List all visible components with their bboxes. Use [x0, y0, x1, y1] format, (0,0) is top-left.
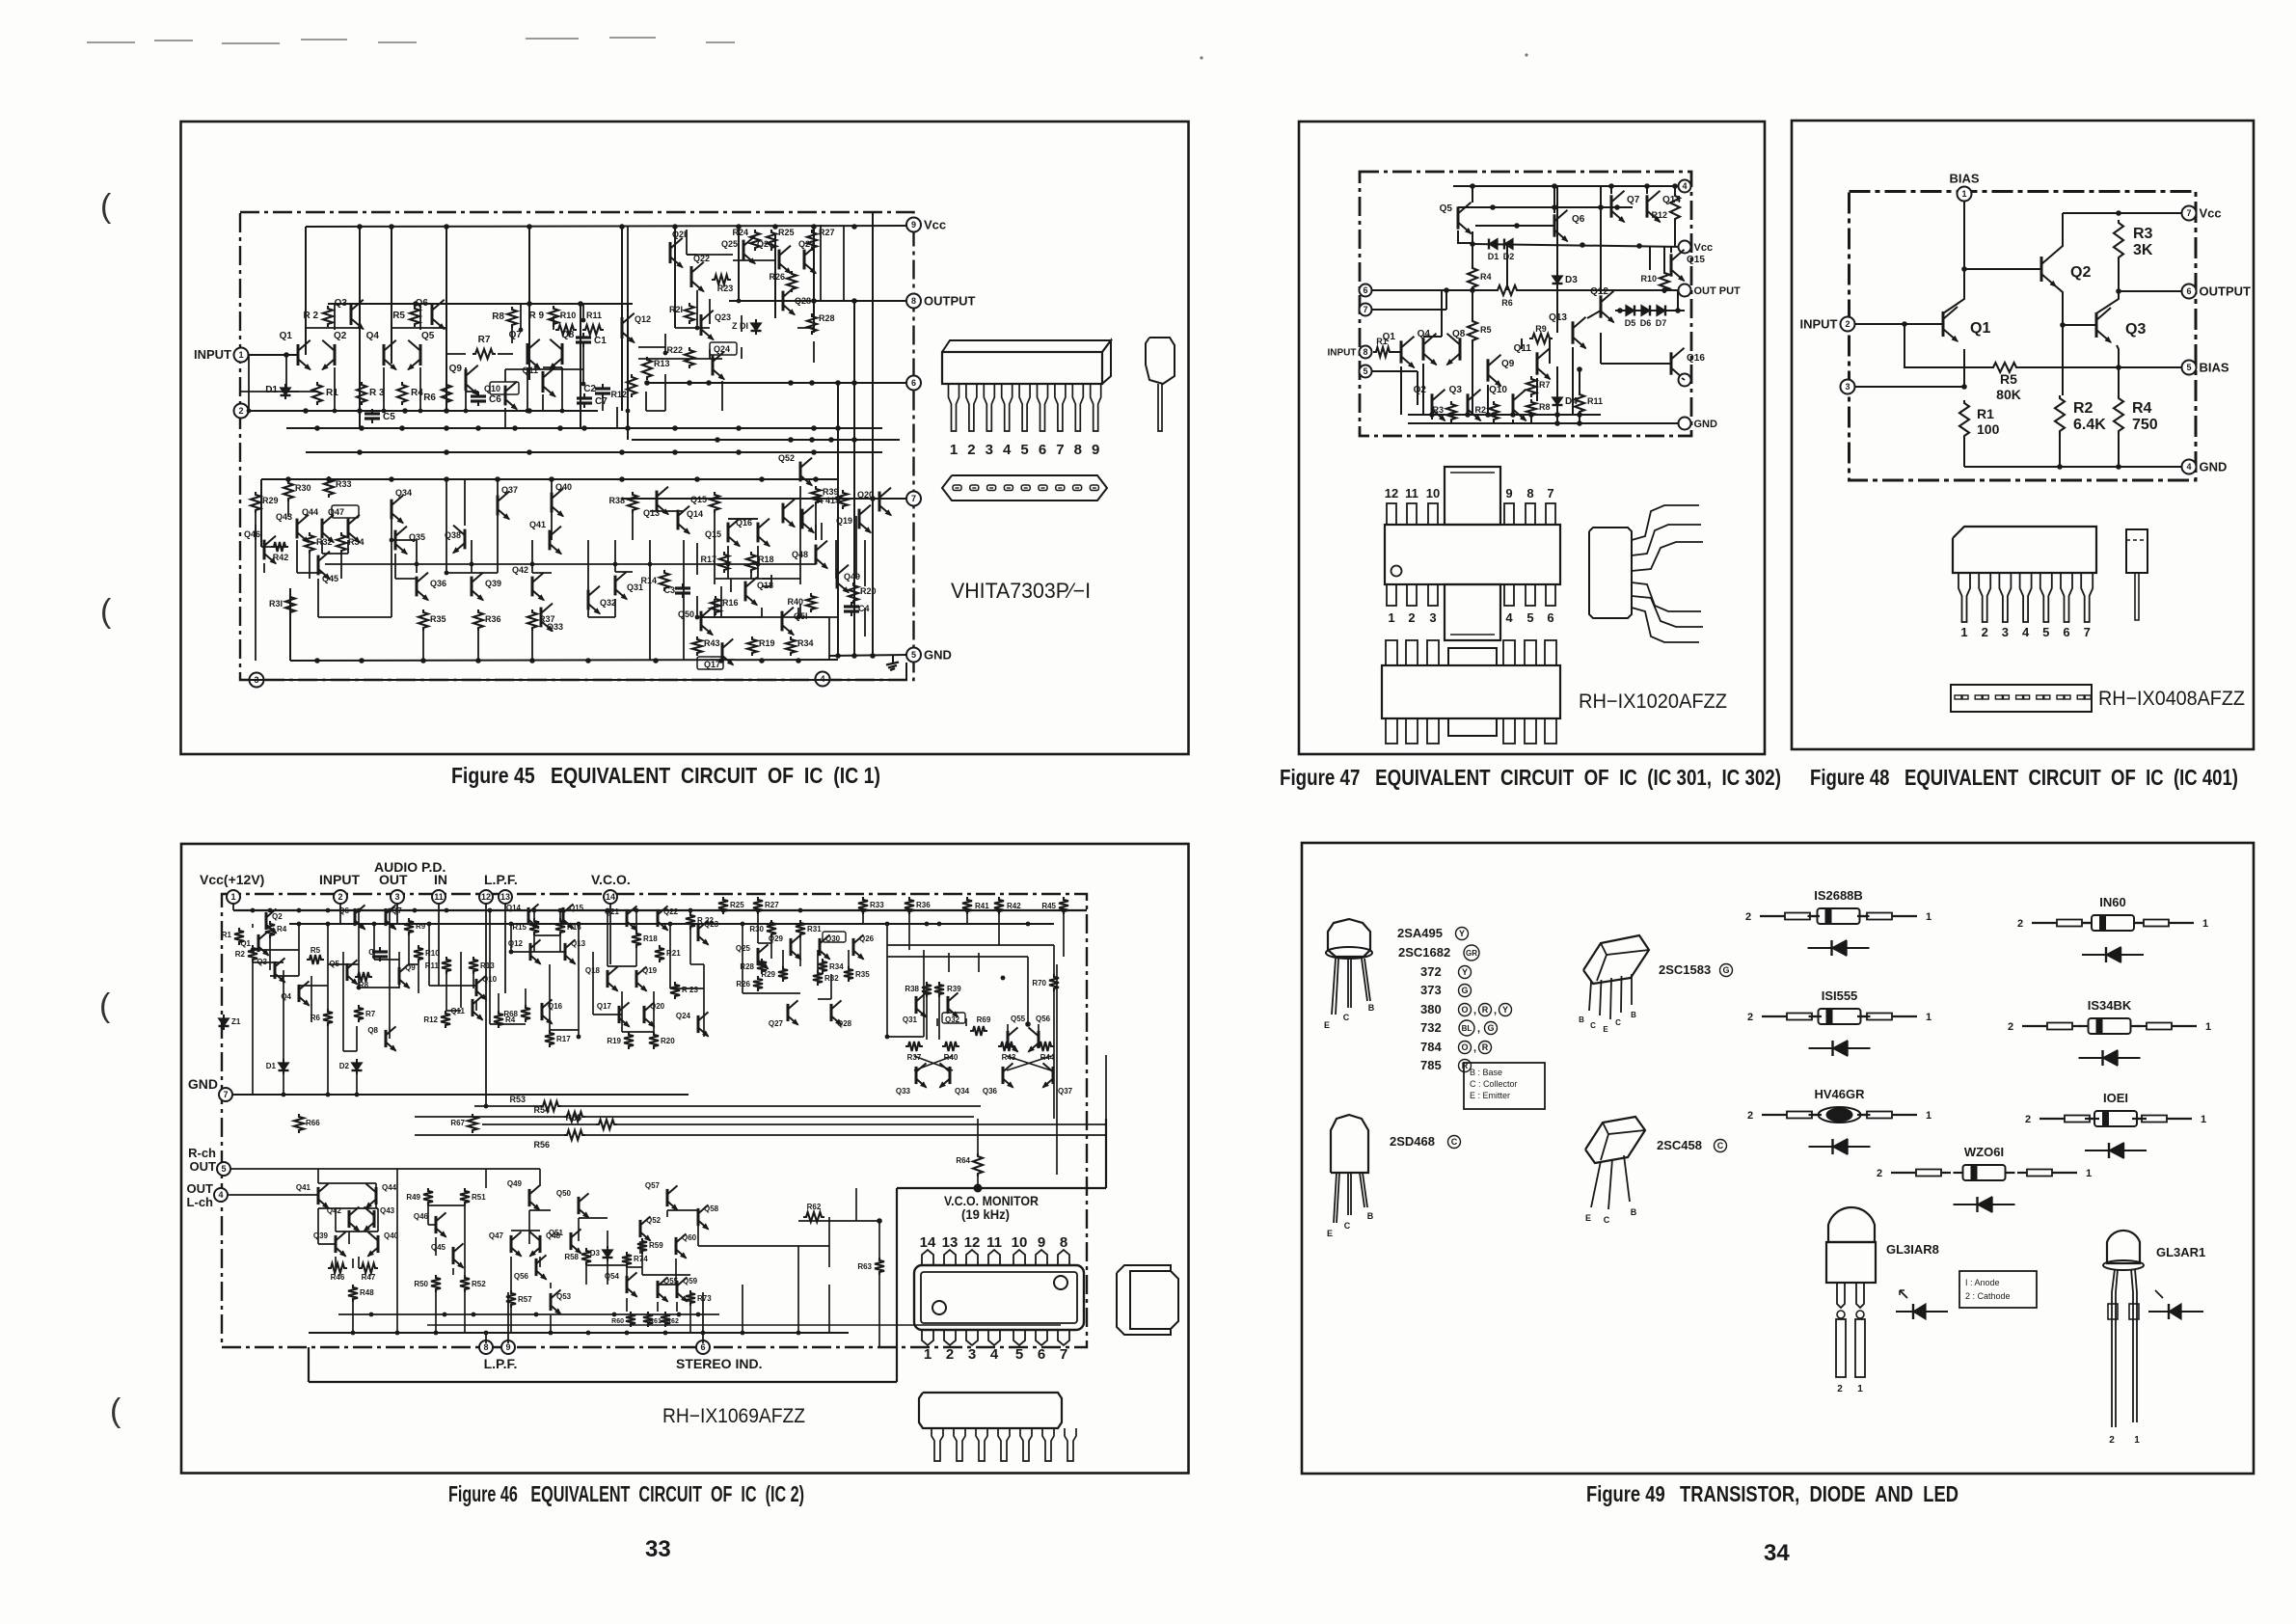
resistor R57: [506, 1290, 516, 1308]
resistor R18: [746, 552, 756, 573]
long route wires lower: [396, 1244, 398, 1333]
svg-text:Q14: Q14: [687, 509, 703, 519]
svg-text:Q51: Q51: [549, 1229, 564, 1237]
svg-text:Q32: Q32: [600, 598, 616, 608]
anode cathode legend box: [1959, 1271, 2037, 1308]
svg-text:V.C.O.: V.C.O.: [591, 872, 631, 887]
Vcc line: [1473, 244, 1685, 247]
resistor R28: [807, 313, 817, 335]
resistor R69 horizontal: [970, 1026, 987, 1036]
svg-text:OUTPUT: OUTPUT: [2200, 284, 2252, 299]
resistor R1: [234, 928, 244, 945]
transistor Q43: [296, 519, 299, 539]
svg-text:Q58: Q58: [704, 1204, 719, 1213]
svg-text:2SC1583: 2SC1583: [1659, 962, 1711, 977]
resistor R10 horizontal: [555, 325, 577, 335]
transistor Q12: [1600, 295, 1603, 317]
svg-text:R38: R38: [905, 985, 919, 993]
transistor Q20: [643, 1006, 646, 1023]
resistor R7 horizontal: [473, 349, 496, 359]
package pins up and numbers 12 11 10 / 9 8 7: [1387, 503, 1396, 525]
svg-text:OUTPUT: OUTPUT: [924, 294, 976, 309]
wire Q16 base left long: [1601, 363, 1671, 365]
svg-text:R55: R55: [565, 1113, 581, 1123]
svg-text:Q26: Q26: [757, 239, 773, 249]
svg-text:R4: R4: [2132, 400, 2152, 417]
svg-text:Q46: Q46: [414, 1212, 429, 1221]
svg-text:3: 3: [986, 442, 993, 458]
wire Q2emitter column down to R2: [2062, 325, 2064, 395]
svg-text:R26: R26: [736, 980, 750, 988]
pin 9 bottom: [501, 1340, 515, 1354]
svg-text:Q60: Q60: [682, 1233, 697, 1242]
svg-text:R52: R52: [472, 1280, 486, 1288]
svg-text:Q20: Q20: [650, 1002, 665, 1011]
resistor R38: [922, 982, 932, 997]
svg-text:C: C: [1604, 1215, 1610, 1225]
svg-text:Figure 48 EQUIVALENT CIRCUI: Figure 48 EQUIVALENT CIRCUIT OF IC (IC 4…: [1810, 765, 2238, 790]
resistor R11: [442, 957, 451, 974]
figure 46 group: equivalent circuit of IC2: [181, 844, 1189, 1474]
svg-text:R53: R53: [509, 1095, 526, 1104]
GND rail: [1408, 422, 1685, 424]
wire Q1 emitter down to pin3 node: [1963, 349, 1965, 387]
pin 13 top: [499, 890, 512, 904]
IC2 left column wires: [232, 904, 234, 910]
pin 6: [906, 376, 921, 391]
bottom junction bus: [1408, 414, 1601, 416]
transistor Q46: [435, 1216, 438, 1233]
extra pair transistors: [782, 503, 785, 524]
svg-text:10: 10: [1012, 1234, 1028, 1251]
svg-text:Q2: Q2: [2070, 264, 2091, 281]
resistor R31: [285, 594, 295, 615]
transistor Q23: [700, 314, 703, 336]
svg-text:GL3IAR8: GL3IAR8: [1886, 1242, 1939, 1257]
svg-text:INPUT: INPUT: [319, 872, 360, 887]
svg-text:Q37: Q37: [501, 485, 518, 495]
svg-text:B : Base: B : Base: [1470, 1068, 1502, 1077]
svg-text:Q49: Q49: [507, 1179, 523, 1188]
transistor Q25: [743, 240, 745, 260]
svg-text:C4: C4: [858, 604, 870, 613]
svg-text:R5: R5: [392, 311, 405, 321]
svg-text:Q2I: Q2I: [672, 230, 687, 239]
transistor Q54: [626, 1276, 629, 1293]
svg-text:6: 6: [1547, 610, 1553, 625]
svg-text:Q15: Q15: [569, 904, 584, 912]
svg-text:2: 2: [1845, 319, 1850, 329]
svg-text:Q19: Q19: [836, 516, 852, 526]
resistor R25: [718, 897, 728, 914]
svg-text:Q3: Q3: [1449, 385, 1463, 395]
svg-text:Q17: Q17: [704, 660, 720, 669]
svg-text:2: 2: [1747, 1012, 1753, 1023]
svg-text:2: 2: [2025, 1114, 2031, 1125]
transistor Q58: [697, 1208, 700, 1226]
transistor Q50: [700, 611, 703, 632]
resistor R30: [284, 480, 293, 501]
transistor Q11: [1536, 352, 1539, 374]
svg-text:Q36: Q36: [983, 1087, 998, 1096]
resistor R4: [1468, 265, 1477, 290]
diode package WZO6I: [1891, 1172, 1916, 1174]
scan artifact dashes top margin: [87, 41, 135, 43]
svg-text:2: 2: [2008, 1021, 2013, 1033]
transistor Q42: [531, 577, 534, 597]
pin 6 OUTPUT: [2182, 284, 2197, 299]
svg-text:R5: R5: [2000, 371, 2017, 387]
lower block sub-rails: [697, 616, 829, 618]
svg-text:Q10: Q10: [484, 384, 500, 393]
transistor Q50: [578, 1197, 581, 1214]
wire input junction down to R5 line: [1904, 324, 1990, 367]
svg-text:R22: R22: [666, 345, 683, 355]
svg-text:R42: R42: [273, 553, 289, 562]
svg-text:R4: R4: [411, 388, 423, 398]
svg-text:R3I: R3I: [269, 599, 283, 609]
input wire: [249, 354, 298, 356]
resistor R17: [719, 552, 729, 573]
svg-text:2: 2: [1745, 911, 1751, 923]
svg-text:GND: GND: [188, 1076, 218, 1092]
transistor Q24 boxed: [712, 356, 715, 376]
svg-text:1: 1: [1926, 1110, 1931, 1122]
capacitor C6: [477, 392, 479, 396]
resistor R42 horizontal: [271, 542, 288, 552]
svg-text:2SA495: 2SA495: [1397, 926, 1443, 940]
svg-text:,: ,: [1494, 1005, 1497, 1016]
pin 6 left: [1360, 284, 1372, 297]
resistor R22: [685, 347, 694, 368]
svg-text:8: 8: [1074, 442, 1082, 458]
svg-text:Vcc: Vcc: [924, 218, 946, 232]
OUT PUT line: [1365, 289, 1495, 291]
svg-text:R60: R60: [611, 1318, 624, 1325]
svg-text:R25: R25: [778, 228, 795, 237]
svg-text:R 2: R 2: [303, 311, 318, 321]
resistor R14: [660, 570, 669, 591]
svg-text:2: 2: [1837, 1384, 1843, 1394]
transistor package 2SA495 TO-39 can: [1328, 919, 1370, 957]
svg-text:C: C: [1451, 1137, 1458, 1147]
svg-text:80K: 80K: [1996, 387, 2021, 402]
transistor Q56: [1038, 1031, 1040, 1048]
transistor Q21: [669, 242, 672, 263]
svg-text:R19: R19: [607, 1037, 621, 1045]
junction R5 line at R4 column: [2116, 365, 2121, 370]
diode D1 D2 on Vcc feed: [1489, 239, 1498, 250]
transistor Q6: [354, 908, 357, 926]
IC401 package side view: [2126, 529, 2147, 573]
svg-text:(: (: [100, 593, 112, 630]
svg-text:1: 1: [2202, 918, 2208, 930]
svg-text:Q13: Q13: [1549, 312, 1567, 323]
pin OUT PUT right: [1679, 284, 1691, 297]
svg-text:Q46: Q46: [244, 529, 260, 539]
transistor Q20: [878, 492, 881, 512]
svg-text:Q11: Q11: [522, 365, 538, 375]
svg-text:R49: R49: [406, 1193, 420, 1202]
svg-text:R70: R70: [1032, 979, 1046, 988]
svg-text:E: E: [1603, 1025, 1608, 1034]
VCO monitor wire: [897, 1187, 1106, 1189]
pin Vcc right: [1679, 241, 1691, 254]
svg-text:R6: R6: [423, 392, 436, 403]
resistor R3: [357, 382, 366, 405]
transistor Q13: [1572, 321, 1575, 343]
resistor R12: [1670, 193, 1680, 222]
svg-text:Z DI: Z DI: [732, 321, 748, 331]
svg-text:Q47: Q47: [328, 507, 344, 517]
svg-text:3: 3: [1845, 382, 1850, 392]
svg-text:C2: C2: [583, 384, 596, 394]
svg-text:R 9: R 9: [528, 311, 544, 321]
svg-text:2: 2: [1982, 625, 1988, 639]
svg-text:4: 4: [990, 1346, 999, 1363]
pin 3: [1841, 380, 1855, 394]
capacitor C4: [851, 602, 852, 607]
svg-text:R51: R51: [472, 1193, 486, 1202]
svg-text:R54: R54: [533, 1105, 550, 1115]
right half mid rails: [887, 944, 1054, 946]
svg-text:R36: R36: [916, 901, 931, 909]
svg-text:C7: C7: [595, 396, 608, 407]
svg-text:INPUT: INPUT: [1328, 348, 1357, 359]
svg-text:BL: BL: [1462, 1024, 1472, 1033]
transistor Q8: [561, 343, 564, 365]
resistor R37: [527, 609, 537, 631]
diode package HV46GR: [1762, 1114, 1787, 1116]
svg-text:Q50: Q50: [678, 609, 694, 619]
resistor R33: [324, 476, 334, 498]
svg-text:R27: R27: [765, 901, 779, 909]
L-ch out wire: [229, 1194, 318, 1196]
resistor R39: [811, 486, 821, 505]
svg-text:R33: R33: [336, 479, 352, 489]
svg-text:Q15: Q15: [705, 529, 721, 539]
resistor R73: [686, 1290, 695, 1306]
svg-text:R5: R5: [311, 946, 321, 955]
svg-text:2: 2: [2109, 1435, 2115, 1446]
transistor Q11: [472, 999, 474, 1016]
transistor Q4: [383, 344, 386, 365]
svg-text:1: 1: [2134, 1435, 2140, 1446]
IC2 package bottom view 7 long legs: [919, 1393, 1062, 1428]
transistor Q31 boxed: [915, 996, 918, 1014]
svg-text:R23: R23: [717, 284, 734, 293]
resistor R13: [469, 957, 478, 974]
svg-text:R13: R13: [654, 359, 670, 368]
resistor R41: [838, 490, 848, 509]
figure 49 group: transistor, diode and LED packages: [1302, 843, 2254, 1474]
svg-text:Q52: Q52: [646, 1216, 662, 1225]
svg-text:1: 1: [1961, 189, 1966, 199]
svg-text:R20: R20: [860, 586, 877, 596]
resistor R20: [649, 1032, 659, 1049]
svg-text:Q34: Q34: [955, 1087, 970, 1096]
svg-text:R10: R10: [425, 949, 440, 958]
svg-text:E: E: [1324, 1020, 1330, 1030]
diode package IS2688B: [1760, 915, 1785, 917]
svg-text:7: 7: [2084, 625, 2091, 639]
svg-text:GR: GR: [1466, 949, 1477, 958]
transistor Q7: [527, 343, 529, 365]
transistor Q31: [614, 576, 617, 596]
pin 2: [234, 404, 249, 419]
extra interconnect wires upper block IC1: [248, 355, 250, 411]
svg-text:7: 7: [1547, 486, 1553, 501]
svg-text:B: B: [1579, 1015, 1584, 1024]
svg-text:785: 785: [1420, 1058, 1442, 1072]
transistor Q32: [587, 590, 590, 610]
svg-text:D3: D3: [590, 1249, 601, 1258]
resistor R50: [431, 1275, 441, 1292]
svg-text:WZO6I: WZO6I: [1964, 1145, 2004, 1159]
svg-text:Q4: Q4: [366, 331, 380, 341]
IC1 dash-dot boundary: [240, 212, 914, 680]
svg-text:R29: R29: [761, 970, 775, 979]
resistor R21: [685, 303, 694, 324]
resistor R5: [410, 306, 419, 327]
svg-text:12: 12: [964, 1234, 981, 1251]
figure 48 group: equivalent circuit of IC 401: [1792, 121, 2254, 749]
resistor R9 horizontal: [1529, 334, 1553, 343]
svg-text:E: E: [1327, 1229, 1333, 1238]
svg-text:Q17: Q17: [597, 1002, 612, 1011]
svg-text:5: 5: [1015, 1346, 1023, 1363]
transistor Q1: [1400, 340, 1403, 363]
svg-text:E : Emitter: E : Emitter: [1470, 1091, 1510, 1100]
IC2 package drawing 14 pin DIP: [914, 1265, 1084, 1330]
svg-text:R64: R64: [956, 1156, 970, 1165]
svg-text:2: 2: [946, 1346, 954, 1363]
transistor Q2: [334, 344, 337, 365]
svg-text:6: 6: [1038, 1346, 1045, 1363]
resistor R42: [994, 897, 1004, 914]
svg-text:Q8: Q8: [1452, 329, 1466, 339]
svg-text:RH−IX0408AFZZ: RH−IX0408AFZZ: [2098, 688, 2245, 710]
svg-text:C: C: [1717, 1141, 1724, 1150]
pin 11 top: [432, 890, 446, 904]
resistor R36: [473, 609, 483, 631]
transistor Q34: [949, 1067, 952, 1084]
upper mid horizontal links: [306, 327, 351, 329]
svg-text:R13: R13: [480, 961, 495, 970]
transistor Q11: [542, 371, 545, 392]
svg-text:Q22: Q22: [663, 907, 679, 916]
svg-text:R2: R2: [2073, 400, 2093, 417]
svg-text:Q23: Q23: [715, 312, 731, 322]
svg-text:1: 1: [2086, 1168, 2092, 1179]
pin 2 INPUT: [1841, 317, 1855, 332]
transistor Q24: [697, 1015, 700, 1033]
transistor Q51: [570, 1232, 573, 1250]
svg-text:Q6: Q6: [338, 907, 349, 915]
svg-text:R38: R38: [608, 496, 625, 505]
transistor Q14: [677, 510, 680, 530]
svg-text:8: 8: [483, 1342, 488, 1352]
svg-text:D1: D1: [266, 1062, 277, 1070]
svg-text:GND: GND: [1694, 419, 1718, 430]
svg-text:Q4: Q4: [281, 992, 291, 1001]
left outer vertical lower: [260, 479, 262, 547]
svg-text:GL3AR1: GL3AR1: [2156, 1245, 2205, 1259]
svg-text:7: 7: [223, 1090, 228, 1099]
svg-text:IS2688B: IS2688B: [1814, 888, 1863, 903]
svg-text:Q34: Q34: [395, 488, 412, 498]
svg-text:R34: R34: [829, 962, 844, 971]
resistor R7: [1526, 376, 1536, 397]
diode D3: [607, 1246, 608, 1250]
pin 5 GND: [906, 648, 921, 663]
transistor Q48: [815, 545, 818, 565]
resistor R1 horizontal on input: [1373, 347, 1392, 357]
resistor R10: [414, 945, 423, 962]
svg-text:B: B: [1367, 1211, 1374, 1221]
svg-text:Q57: Q57: [645, 1181, 661, 1190]
svg-text:L.P.F.: L.P.F.: [484, 1356, 518, 1371]
wire diode string to right edge column: [1677, 290, 1679, 311]
package top tab: [1445, 467, 1500, 525]
transistor Q1: [257, 934, 260, 952]
svg-text:3K: 3K: [2133, 242, 2153, 258]
svg-text:Q56: Q56: [514, 1272, 529, 1281]
transistor Q30 boxed: [819, 938, 822, 956]
resistor R21: [655, 945, 664, 962]
svg-text:R 41: R 41: [817, 496, 835, 505]
transistor Q14: [527, 907, 530, 925]
OUTPUT wire to pin6: [2119, 290, 2189, 292]
svg-text:O: O: [1461, 1042, 1468, 1052]
svg-text:D1: D1: [1488, 252, 1499, 261]
svg-text:R8: R8: [492, 311, 504, 322]
svg-text:G: G: [1461, 986, 1468, 995]
svg-text:R1: R1: [1376, 337, 1388, 346]
svg-text:OUT PUT: OUT PUT: [1694, 285, 1742, 297]
svg-text:14: 14: [920, 1234, 936, 1251]
svg-text:11: 11: [1405, 486, 1418, 501]
main rails IC2: [233, 909, 1087, 911]
svg-text:(: (: [100, 188, 112, 225]
svg-text:14: 14: [606, 892, 615, 902]
resistor R23 horizontal: [712, 275, 731, 284]
svg-text:OUT: OUT: [190, 1159, 217, 1174]
resistor R4: [397, 382, 407, 405]
transistor Q17: [618, 1006, 621, 1023]
outer bottom wire with pins 3 and 4: [240, 679, 906, 681]
svg-text:D1: D1: [265, 385, 278, 395]
diode D1: [284, 384, 286, 388]
transistor Q42: [348, 1210, 351, 1228]
transistor Q23: [697, 924, 700, 941]
svg-text:G: G: [1722, 965, 1729, 975]
node BIAS wire from pin1 down: [1963, 199, 1965, 269]
resistor R13: [642, 357, 652, 380]
transistor Q52: [799, 462, 802, 482]
transistor Q3: [274, 961, 277, 979]
svg-text:BIAS: BIAS: [1949, 172, 1979, 186]
svg-text:100: 100: [1977, 421, 2000, 437]
svg-text:373: 373: [1420, 983, 1442, 997]
svg-text:Q33: Q33: [896, 1087, 911, 1096]
wire Q1 collector: [1943, 269, 1964, 313]
svg-text:Vcc: Vcc: [2200, 206, 2222, 221]
long base rail of lower block: [325, 563, 816, 565]
transistor Q59: [676, 1281, 679, 1298]
svg-text:Q43: Q43: [380, 1206, 395, 1215]
svg-text:R39: R39: [947, 985, 961, 993]
